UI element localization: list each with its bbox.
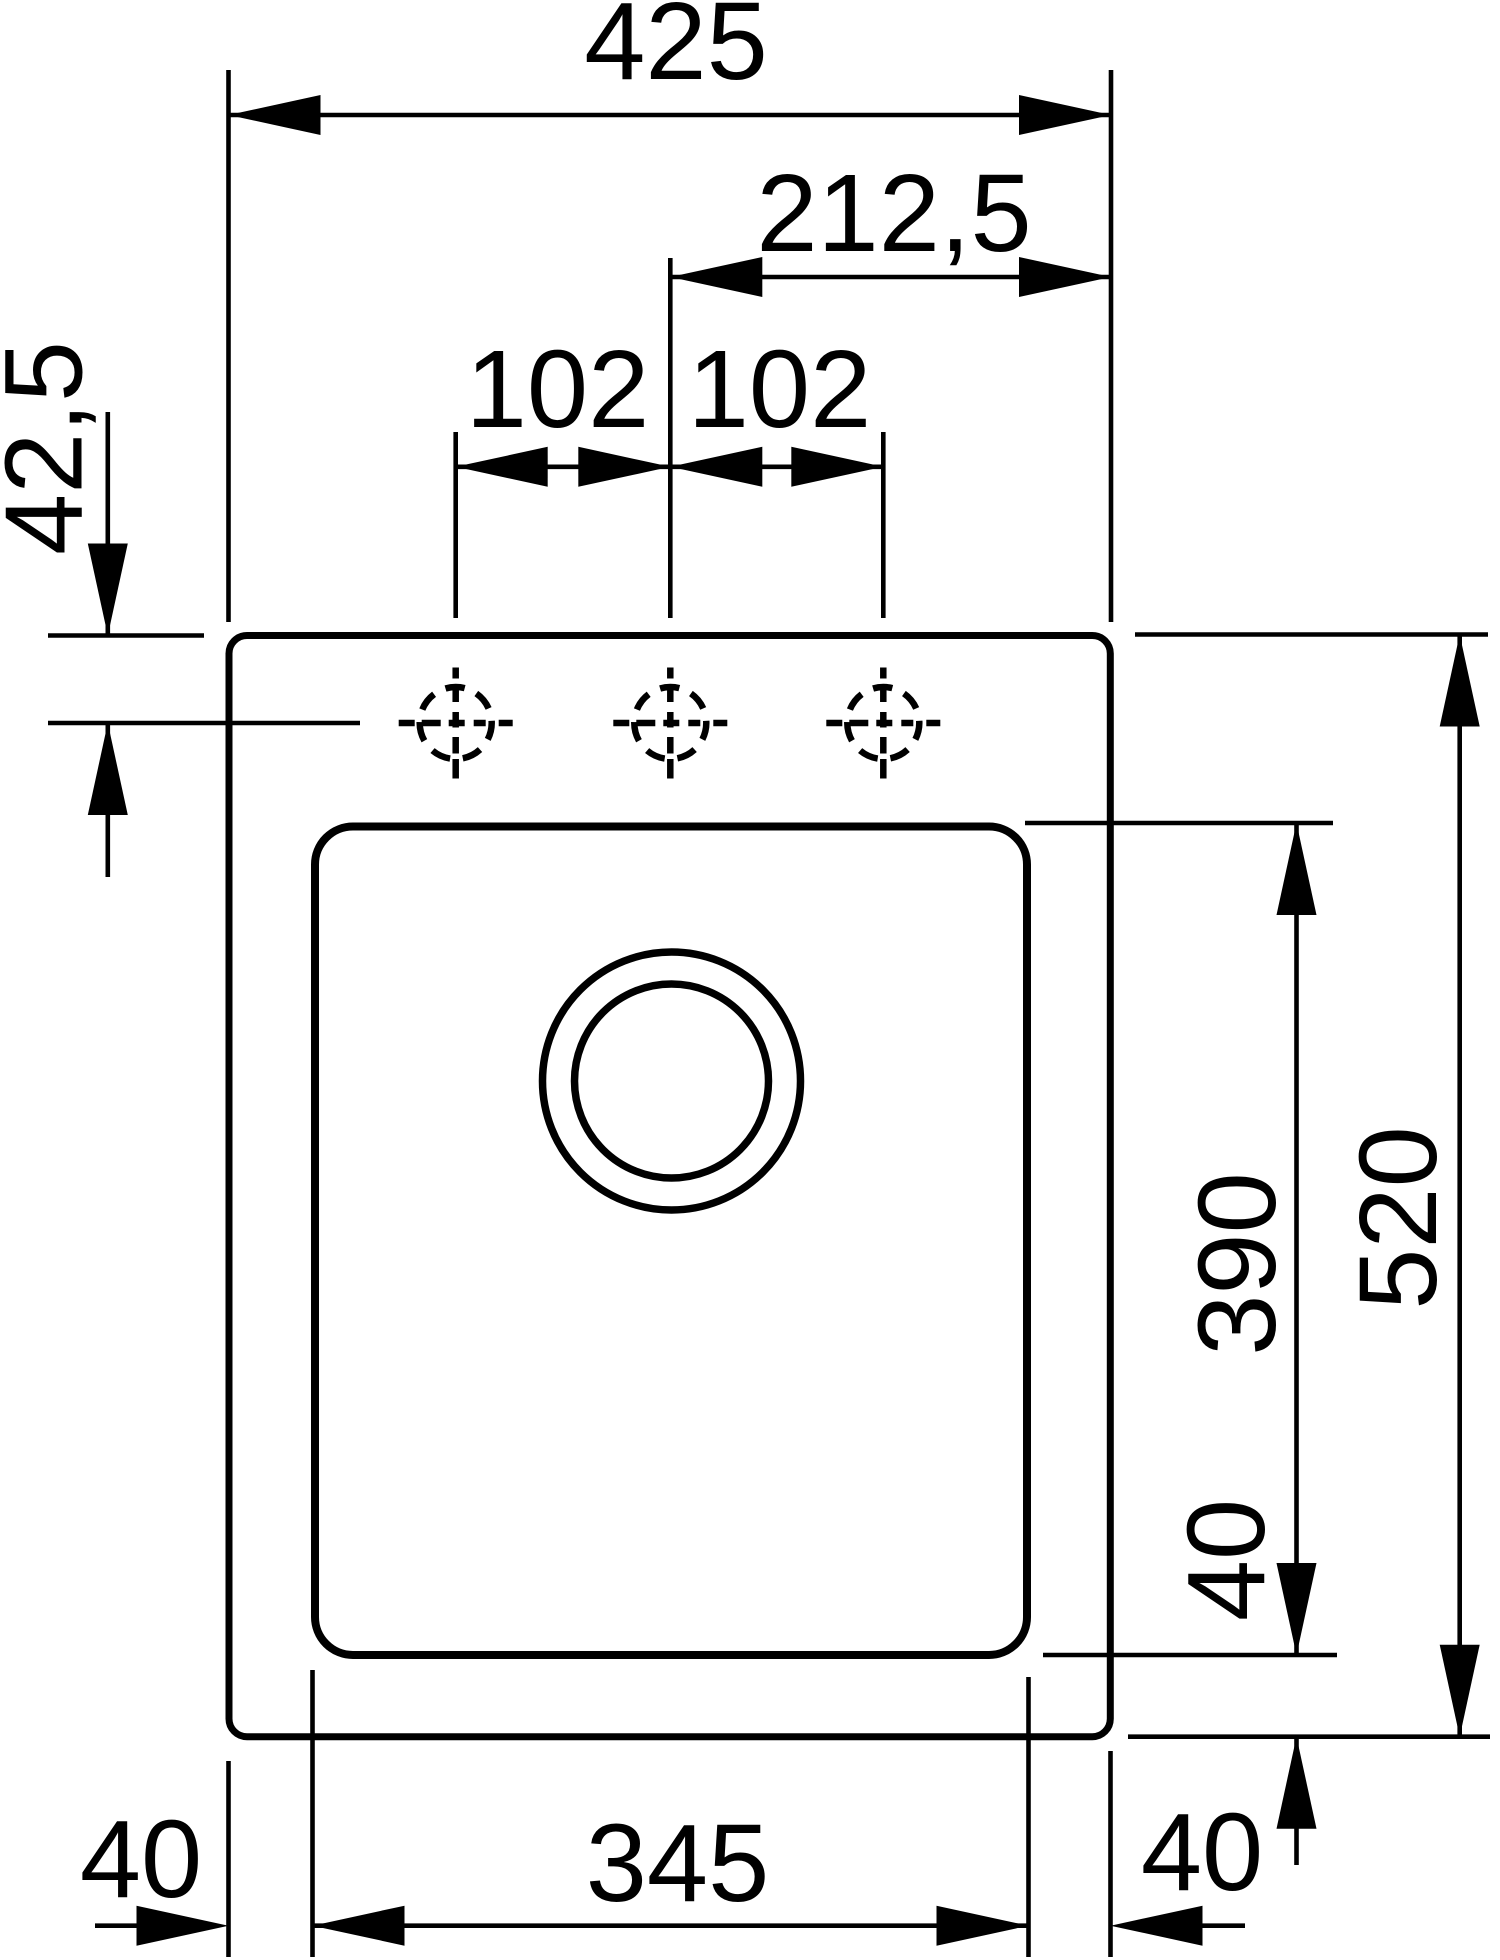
- drain inner circle: [575, 984, 769, 1178]
- dim 102 arrowhead at right tick: [791, 447, 883, 487]
- dim 345 arrowhead right: [937, 1906, 1029, 1946]
- dim 42,5 arrowhead down: [88, 544, 128, 636]
- dim 40 bottom-left arrowhead: [137, 1906, 229, 1946]
- svg-text:520: 520: [1337, 1126, 1460, 1310]
- dim 212,5 arrowhead right: [1019, 257, 1111, 297]
- dim 42,5 extension line upper: [48, 633, 204, 638]
- dim 42,5 dimension line upper tail: [106, 412, 111, 636]
- dim 102 arrowhead at left tick: [456, 447, 548, 487]
- dim 345 arrowhead left: [313, 1906, 405, 1946]
- dim 390 extension line bottom: [1043, 1653, 1337, 1658]
- svg-text:212,5: 212,5: [756, 152, 1031, 275]
- drain outer circle: [543, 952, 801, 1210]
- dim 42,5 arrowhead up: [88, 723, 128, 815]
- dim 42,5 dimension line lower tail: [106, 723, 111, 877]
- dim 42,5 extension line lower: [48, 721, 360, 726]
- dim 40 right arrowhead up: [1277, 1737, 1317, 1829]
- faucet hole symbol center: [613, 668, 727, 779]
- dim 520 extension line top: [1135, 632, 1488, 637]
- dim 520 arrowhead down: [1440, 1645, 1480, 1737]
- dim 425 extension line right: [1109, 70, 1114, 622]
- dim 390 extension line top: [1025, 821, 1333, 826]
- dim 520 dimension line: [1457, 635, 1462, 1737]
- dim 212,5 dimension line: [670, 275, 1111, 280]
- dim 102 extension line right: [881, 432, 886, 618]
- dim 425 arrowhead right: [1019, 95, 1111, 135]
- dim 102 dimension line: [456, 464, 884, 469]
- svg-text:40: 40: [1141, 1791, 1263, 1914]
- dim 520 extension line bottom: [1128, 1734, 1490, 1739]
- dim 390 dimension line: [1294, 823, 1299, 1655]
- svg-text:42,5: 42,5: [0, 341, 106, 555]
- sink bowl outline: [315, 827, 1027, 1656]
- svg-text:390: 390: [1176, 1172, 1299, 1356]
- dim 102 extension line left: [453, 432, 458, 618]
- svg-text:40: 40: [80, 1798, 202, 1921]
- dim 425 extension line left: [226, 70, 231, 622]
- dim 520 arrowhead up: [1440, 635, 1480, 727]
- dim 102 arrowhead left-pointing at center tick: [670, 447, 762, 487]
- dim 40 bottom-left extension line: [226, 1761, 231, 1957]
- faucet hole symbol left: [399, 668, 513, 779]
- svg-text:425: 425: [584, 0, 768, 103]
- dim 425 dimension line: [229, 113, 1112, 118]
- dim 212,5 arrowhead left: [670, 257, 762, 297]
- svg-text:345: 345: [586, 1802, 770, 1925]
- dim 40 bottom-right arrowhead: [1111, 1906, 1203, 1946]
- dim 425 arrowhead left: [229, 95, 321, 135]
- dim 390 arrowhead up: [1277, 823, 1317, 915]
- dim 345 dimension line: [313, 1923, 1029, 1928]
- dim 212,5 extension line left: [668, 258, 673, 618]
- dim 40 bottom-right extension line: [1108, 1751, 1113, 1957]
- dim 40 bottom-left dimension tail: [95, 1923, 137, 1928]
- dim 390 arrowhead down: [1277, 1563, 1317, 1655]
- faucet hole symbol right: [826, 668, 940, 779]
- dim 40 bottom-right dimension tail: [1202, 1923, 1245, 1928]
- sink outer outline: [229, 636, 1110, 1737]
- svg-text:102: 102: [466, 328, 650, 451]
- dim 345 extension line right: [1026, 1677, 1031, 1957]
- dim 102 arrowhead right-pointing at center tick: [578, 447, 670, 487]
- svg-text:102: 102: [688, 328, 872, 451]
- dim 40 right dimension tail: [1294, 1737, 1299, 1865]
- dim 345 extension line left: [310, 1670, 315, 1957]
- svg-text:40: 40: [1165, 1499, 1288, 1621]
